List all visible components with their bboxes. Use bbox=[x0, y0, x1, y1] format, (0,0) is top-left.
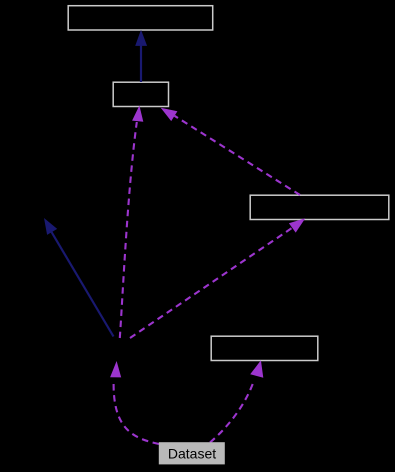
node Dataset current class grey filled bbox=[159, 442, 225, 464]
edge E4 dashed usage arrow hidden node to Box3 bottom bbox=[130, 218, 305, 338]
node Box2 middle class bbox=[113, 82, 168, 106]
node Box1 top base class bbox=[68, 6, 213, 30]
edge E2 solid inheritance arrow hidden node to hidden node upper-left bbox=[44, 218, 114, 337]
edge E3 dashed usage arrow hidden node up to Box2 bottom bbox=[120, 106, 144, 339]
node Box3 right class bbox=[250, 195, 389, 219]
edge E5 dashed usage arrow Box3 top to Box2 bottom-right bbox=[161, 108, 300, 195]
edge E7 dashed curved arrow Dataset to Box4 bottom bbox=[210, 360, 263, 442]
svg-text:Dataset: Dataset bbox=[168, 446, 216, 462]
edge E6 dashed curved arrow Dataset to hidden node bottom bbox=[110, 361, 159, 444]
edge E1 solid inheritance arrow Box2 to Box1 bbox=[135, 30, 147, 82]
node Box4 lower right class bbox=[211, 336, 318, 360]
